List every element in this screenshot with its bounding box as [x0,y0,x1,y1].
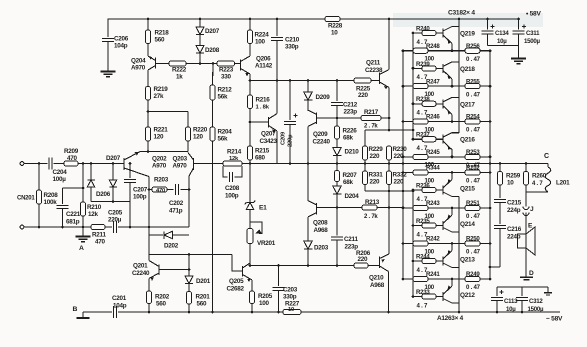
svg-text:C210: C210 [285,37,300,44]
svg-text:D204: D204 [345,193,360,200]
transistor Q203 A970 (input pair right) [173,153,194,177]
svg-text:220: 220 [358,92,369,99]
svg-text:68k: 68k [343,135,354,142]
svg-text:220: 220 [394,179,405,186]
svg-text:D: D [529,270,534,277]
svg-text:104p: 104p [113,303,127,310]
svg-text:C207: C207 [133,187,148,194]
svg-text:D203: D203 [314,245,329,252]
diode D204 [333,182,360,208]
svg-text:L201: L201 [556,180,570,187]
svg-text:Q205: Q205 [229,278,244,285]
wire C134 to C311 [488,45,519,47]
svg-text:VR201: VR201 [257,240,276,247]
svg-text:560: 560 [197,301,208,308]
resistor R230 (220) [386,146,407,160]
svg-text:R249: R249 [466,271,480,278]
svg-text:100: 100 [259,300,270,307]
label -58V supply [546,316,563,323]
svg-text:− 58V: − 58V [546,316,563,323]
transistor Q202 A970 (input pair left) [124,152,167,177]
label C3182x4 upper output transistor type [448,10,475,17]
capacitor C216 (224p) [494,226,522,268]
wire lower drive line y191 [365,185,414,193]
svg-text:A970: A970 [152,163,167,170]
svg-text:R252: R252 [466,165,480,172]
node E label [528,223,533,230]
svg-text:100p: 100p [225,193,239,200]
wire R220 to emitter hat [187,141,189,152]
svg-text:0 . 47: 0 . 47 [466,56,481,63]
svg-text:2 . 7k: 2 . 7k [364,124,378,130]
svg-text:C221: C221 [66,211,81,218]
resistor R201 (560) [186,292,210,308]
svg-text:R253: R253 [466,149,480,156]
svg-text:Q212: Q212 [460,292,475,299]
resistor R214 (12k, feedback) [223,149,242,167]
svg-text:R230: R230 [393,146,408,153]
resistor R248 (100) [402,43,465,63]
diode D209 [304,81,331,112]
svg-text:R237: R237 [416,132,430,139]
diode D207 (VAS bias) [196,18,220,46]
input terminal CN201 hot [20,162,24,166]
connector J [523,206,534,234]
capacitor C209 (220u) bootstrap [281,81,298,164]
wire 100-ohm bus [402,51,404,279]
svg-text:R205: R205 [258,293,273,300]
wire zobel return [490,266,500,268]
svg-text:220: 220 [370,179,381,186]
label +58V supply [526,11,541,18]
svg-text:Q210: Q210 [369,275,384,282]
capacitor C113 (10u) [491,287,518,313]
svg-text:100: 100 [425,284,435,291]
svg-text:C208: C208 [225,185,240,192]
resistor R236 (4.7) base of Q215 [412,182,443,202]
svg-text:C2240: C2240 [132,270,150,277]
label A1263x4 lower output transistor type [437,315,464,322]
wire R209 to Q202 base [78,162,131,165]
resistor R241 (100) [402,271,465,291]
svg-text:C: C [544,153,549,160]
svg-text:Q215: Q215 [460,186,475,193]
svg-text:R217: R217 [364,109,379,116]
svg-text:220: 220 [358,256,369,263]
svg-text:R331: R331 [369,172,384,179]
resistor R216 (1.8k) [247,95,270,111]
diode D207 (input clamp) [106,155,121,202]
svg-text:R248: R248 [426,43,440,50]
resistor R233 (4.7) base of Q212 [412,289,443,309]
wire +58V top supply rail [108,18,521,20]
wire R229 to output line [364,160,367,171]
svg-text:R208: R208 [44,192,59,199]
resistor R209 (470) [64,148,79,166]
wire mid junction [336,162,339,165]
svg-text:C2682: C2682 [227,286,245,293]
wire Q208 base [317,206,339,209]
wire R222 to node [186,62,217,65]
resistor R217 (2.7k) [337,109,390,130]
svg-text:1500µ: 1500µ [524,38,541,45]
svg-text:R226: R226 [343,128,358,135]
wire R212 to R204 [212,100,214,127]
svg-text:CN201: CN201 [17,196,35,202]
svg-text:100: 100 [425,177,435,184]
wire rail to R218 [147,18,150,30]
wire to connector J [525,192,527,207]
resistor R225 (220) [354,78,371,99]
svg-text:R243: R243 [426,200,440,207]
resistor R227 (10, series in rail) [283,301,301,315]
resistor R203 (470) [149,177,169,195]
svg-text:D207: D207 [106,155,121,162]
svg-text:C215: C215 [507,200,522,207]
svg-text:Q207: Q207 [261,131,276,138]
wire Q205 collector line [249,264,380,267]
node C output [544,153,549,160]
transistor Q207 C3423 [250,81,278,164]
svg-text:B: B [73,306,78,313]
svg-text:A1142: A1142 [255,63,273,70]
inductor L201 [545,164,570,193]
wire VAS output line [249,79,354,82]
resistor R253 (0.47 emitter) [465,149,491,169]
svg-text:224p: 224p [507,207,521,214]
svg-text:R260: R260 [532,173,547,180]
wire R219 to tail node [147,100,149,127]
wire R225 to Q211 base [371,80,380,82]
svg-text:470: 470 [67,155,78,162]
svg-text:Q209: Q209 [313,131,328,138]
svg-text:470: 470 [156,188,165,194]
resistor R205 (100) [249,291,272,307]
svg-text:330p: 330p [283,294,297,301]
wire C204 to R209 [54,163,65,165]
transistor Q205 C2682 [227,255,253,293]
resistor R249 (0.47 emitter) [465,271,491,291]
svg-text:R204: R204 [218,129,233,136]
svg-text:Q211: Q211 [366,60,381,67]
svg-text:330: 330 [221,74,232,81]
svg-text:E1: E1 [259,205,267,212]
svg-text:R215: R215 [255,148,270,155]
wire R210 column [82,164,85,203]
svg-text:A968: A968 [314,227,329,234]
svg-text:Q204: Q204 [131,58,146,65]
wire R202 to rail [148,304,150,313]
svg-text:C3423: C3423 [260,138,278,145]
diode D203 [304,241,329,266]
svg-text:C205: C205 [108,210,123,217]
svg-text:R254: R254 [466,114,480,121]
capacitor C202 (471p) [148,184,191,215]
svg-text:R255: R255 [466,78,480,85]
svg-text:Q203: Q203 [173,156,188,163]
wire Q204 base line [156,63,170,65]
svg-text:4 . 7: 4 . 7 [417,302,428,309]
svg-text:Q214: Q214 [460,221,475,228]
svg-text:R216: R216 [256,97,271,104]
wire C113 node [497,287,548,292]
svg-text:C3182× 4: C3182× 4 [448,10,475,17]
svg-text:2 . 7k: 2 . 7k [364,214,378,220]
resistor R210 (12k) [80,202,101,218]
resistor R220 (120) [185,127,207,141]
svg-text:681p: 681p [66,219,80,226]
svg-text:C202: C202 [169,200,184,207]
svg-text:A970: A970 [173,163,188,170]
capacitor C311 (1500u) [512,18,540,59]
diode D202 [149,231,189,249]
resistor R260 (4.7) [523,164,546,193]
svg-text:R259: R259 [506,173,521,180]
svg-text:C311: C311 [526,30,540,37]
resistor R255 (0.47 emitter) [465,78,491,98]
svg-text:A: A [79,245,84,252]
svg-text:R240: R240 [416,25,430,32]
svg-text:D210: D210 [345,149,360,156]
svg-text:100: 100 [425,248,435,255]
transistor Q208 A968 [308,201,328,242]
connector CN201 label [17,196,35,202]
wire R218 to Q204 [147,44,149,57]
svg-text:A970: A970 [131,65,146,72]
wire bottom rail [118,311,283,314]
svg-text:C312: C312 [529,298,543,305]
terminal B [73,306,90,318]
wire Q209 emitter down [307,127,310,202]
svg-text:Q219: Q219 [460,31,475,38]
transistor Q213 A1263 (output PNP) [443,244,475,268]
svg-text:C113: C113 [504,298,518,305]
resistor R228 (10, series in top rail) [325,16,343,36]
svg-text:56k: 56k [218,94,229,101]
svg-text:Q206: Q206 [256,56,271,63]
resistor R239 (4.7) base of Q218 [412,61,443,81]
resistor R207 (68k) [334,164,357,187]
transistor Q201 C2240 (bias) [132,255,159,292]
svg-text:0 . 47: 0 . 47 [466,127,481,134]
svg-text:Q218: Q218 [460,66,475,73]
wire input return line [24,226,91,229]
wire R201 to rail [188,304,190,312]
transistor Q215 A1263 (output PNP) [443,173,475,197]
svg-text:12k: 12k [229,156,239,162]
resistor R204 (56k) [210,127,232,143]
speaker [518,227,536,255]
svg-text:100k: 100k [44,199,58,206]
transistor Q212 A1263 (output PNP) [443,279,475,303]
resistor R224 (100) [247,18,269,46]
wire upper collector bus [458,18,461,133]
resistor R211 (470) [91,224,106,245]
svg-text:R245: R245 [426,149,440,156]
wire output line mid [242,162,337,165]
svg-text:471p: 471p [169,208,183,215]
transistor Q218 C3182 (output NPN) [443,62,475,86]
resistor R221 (120) [145,127,168,141]
resistor R344 (100) [402,165,465,185]
resistor R247 (100) [402,78,465,98]
wire Q201 base to D201 node [159,268,190,271]
svg-text:560: 560 [156,301,167,308]
resistor R206 (220) [354,250,380,268]
svg-text:330p: 330p [285,44,299,51]
svg-text:R246: R246 [426,114,440,121]
svg-text:224p: 224p [507,234,521,241]
capacitor C211 (223p) [331,208,358,266]
wire lower collector bus [458,197,461,314]
wire clamp diode return [91,200,130,203]
svg-text:120: 120 [193,134,204,141]
ground below C311 [511,59,526,64]
svg-text:R209: R209 [64,148,79,155]
svg-text:C216: C216 [507,226,522,233]
svg-text:R247: R247 [426,78,440,85]
node D terminal [520,270,534,280]
svg-text:0 . 47: 0 . 47 [466,91,481,98]
svg-text:R344: R344 [426,165,440,172]
wire R215 to mid line [249,122,251,164]
svg-text:D201: D201 [196,278,211,285]
svg-text:470: 470 [95,239,106,246]
wire R211 to C205 [105,226,112,228]
svg-text:1k: 1k [176,74,183,81]
wire output line right [337,162,548,165]
wire C205 to feedback node [118,226,189,229]
svg-text:R250: R250 [466,236,480,243]
resistor R226 (68k) [334,118,357,142]
resistor R202 (560) [146,291,169,308]
svg-text:223p: 223p [344,109,358,116]
svg-text:220: 220 [370,153,381,160]
resistor R332 (220) [386,171,407,186]
svg-text:R228: R228 [328,23,343,30]
diode D201 [185,276,211,292]
resistor R229 (220) [362,130,383,160]
capacitor C207 (100p) [124,164,148,228]
ground A below R210 [76,227,91,252]
resistor R245 (100) [402,149,465,169]
capacitor C205 (220u) [108,210,123,234]
svg-text:• 58V: • 58V [526,11,541,18]
svg-text:R229: R229 [369,146,384,153]
capacitor C212 (223p) [331,81,358,119]
capacitor C201 (104p) [112,295,127,318]
svg-text:220µ: 220µ [108,217,122,224]
svg-text:R202: R202 [155,294,170,301]
wire speaker to D [525,248,527,277]
resistor R212 (56k) [210,64,232,101]
resistor R213 (2.7k) [337,199,404,220]
svg-text:68k: 68k [343,179,354,186]
resistor R254 (0.47 emitter) [465,114,491,134]
svg-text:R210: R210 [87,204,102,211]
svg-text:100p: 100p [133,194,147,201]
svg-text:1 . 8k: 1 . 8k [256,105,270,111]
svg-text:10: 10 [331,30,338,37]
wire output bus [489,51,492,280]
svg-text:R242: R242 [426,236,440,243]
wire R230 to output line [388,160,391,171]
svg-text:R211: R211 [92,232,106,239]
resistor R251 (0.47 emitter) [465,200,491,220]
svg-text:R214: R214 [227,149,242,156]
zener E1 [245,201,267,229]
svg-text:D206: D206 [96,191,111,198]
wire bottom rail right [301,311,560,314]
svg-text:220µ: 220µ [288,134,294,147]
capacitor C204 (100u) input coupling [49,157,67,183]
svg-text:R256: R256 [466,43,480,50]
wire R210 to return line [82,216,84,227]
svg-text:R201: R201 [196,294,211,301]
svg-text:100: 100 [255,39,266,46]
svg-text:27k: 27k [154,93,165,100]
svg-text:100µ: 100µ [53,176,67,183]
transistor Q210 A968 (lower driver) [369,191,389,312]
resistor R250 (0.47 emitter) [465,236,491,256]
svg-text:D207: D207 [205,28,220,35]
input return terminal [20,225,24,229]
wire R205 to rail [251,304,253,313]
svg-text:D202: D202 [164,243,179,250]
svg-text:Q208: Q208 [313,220,328,227]
resistor R208 (100k) input shunt [36,164,58,228]
transistor Q206 A1142 (PNP VAS) [241,44,273,81]
svg-text:10: 10 [288,307,294,313]
wire E1 chain [249,162,252,202]
svg-text:R213: R213 [365,199,380,206]
svg-text:R251: R251 [466,200,480,207]
resistor R237 (4.7) base of Q216 [412,132,443,152]
wire Q209 base [317,117,339,120]
svg-text:104p: 104p [114,43,128,50]
svg-text:R223: R223 [219,67,234,74]
capacitor C215 (224p) [494,185,522,224]
capacitor C208 (100p) [223,166,242,200]
svg-text:R241: R241 [426,271,440,278]
svg-text:120: 120 [154,134,165,141]
svg-text:100: 100 [425,213,435,220]
svg-text:4 . 7: 4 . 7 [532,181,543,187]
transistor Q219 C3182 (output NPN) [443,27,475,51]
svg-text:J: J [530,206,534,213]
wire tail to R220 [187,112,189,128]
svg-text:R224: R224 [255,32,270,39]
wire R204 down long [212,141,214,312]
svg-text:C203: C203 [283,287,298,294]
wire emitter hat of input pair [140,150,188,153]
preset VR201 (bias adjust) [247,222,276,266]
diode D208 (VAS bias) [196,46,220,64]
svg-text:Q202: Q202 [152,156,167,163]
wire R221 to emitter hat [147,141,149,152]
svg-text:R239: R239 [416,61,430,68]
resistor R215 (680) [247,146,269,162]
transistor Q216 C3182 (output NPN) [443,133,475,157]
wire tail node horizontal [147,110,188,113]
wire bias line y254 [149,253,232,256]
capacitor C206 (104p) rail decoupling [102,19,129,72]
svg-text:C209: C209 [281,131,287,145]
svg-text:56k: 56k [218,136,229,143]
transistor Q214 A1263 (output PNP) [443,208,475,232]
transistor Q204 A970 (PNP current source) [131,56,156,72]
capacitor C210 (330p) [271,18,300,81]
